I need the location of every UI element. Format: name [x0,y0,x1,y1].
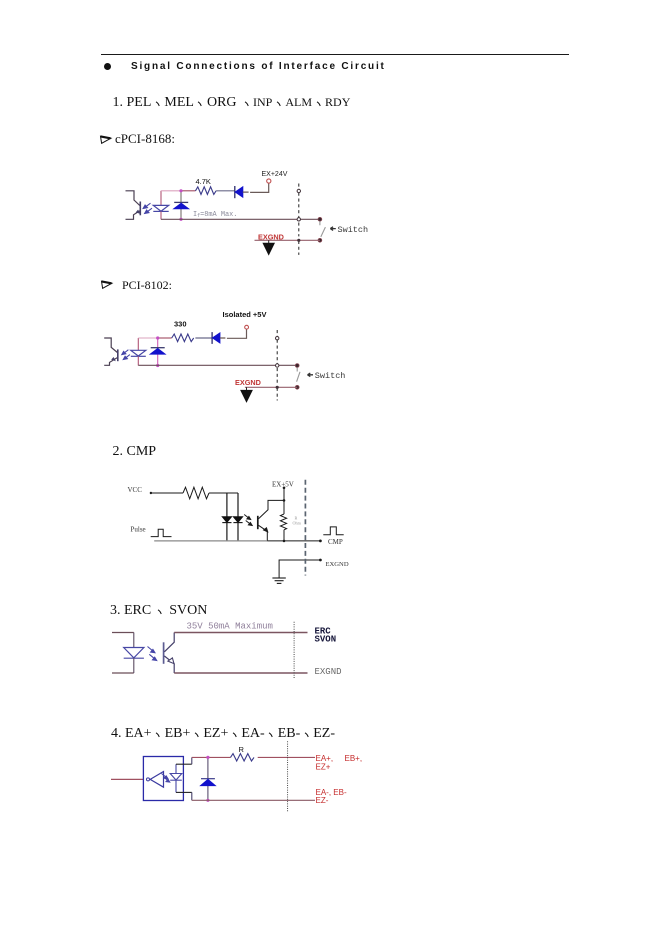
svg-text:EX+24V: EX+24V [262,171,288,178]
junction node collector rail [283,499,286,502]
wire mid rail [161,218,318,220]
connector pin circle top [276,337,279,340]
junction node top [179,189,182,192]
protection diode branch wire [157,338,159,366]
pulse waveform input [151,529,172,536]
wire cathode stub [112,672,134,674]
wire EXGND rail [279,560,320,578]
line driver box U4 [143,757,183,801]
junction node top [206,756,209,759]
wire anode stub [112,632,134,634]
wire emitter stub [104,357,118,365]
dashed connector boundary [276,330,278,401]
switch S1 top contact [318,217,322,221]
CIRCUIT 2 : PCI-8102 [95,300,355,410]
svg-text:EZ+: EZ+ [316,762,331,771]
svg-text:35V 50mA Maximum: 35V 50mA Maximum [187,621,273,631]
resistor R 4.7K [196,187,217,195]
wire LED bottom lead [133,658,135,673]
wire resistor to diode [195,337,212,339]
wire VCC to resistor [151,492,183,494]
wire top rail to resistor [158,337,172,339]
wire cathode stub out of box [176,791,192,793]
switch S2 lever [297,368,300,382]
wire EXGND rail [174,672,307,674]
connector pin circle mid [297,218,300,221]
CIRCUIT 5 : encoder inputs [105,738,375,818]
bullet [104,63,111,70]
label Switch with arrow [308,373,314,377]
terminal Isolated +5V [245,325,249,329]
connector pin circle mid [276,364,279,367]
heading PCI-8102 [100,276,172,294]
svg-text:EB+,: EB+, [345,754,363,763]
optocoupler U2 phototransistor [104,338,118,365]
wire mid rail [138,364,297,366]
protection diode D2 of PCI-8102 (points up) [150,348,165,354]
emitter arrowhead [264,528,268,532]
wire LED branch bottom [160,211,162,219]
LED D1 of optocoupler U2 [131,350,146,356]
CIRCUIT 4 : ERC/SVON [105,615,355,685]
section title [131,61,386,72]
svg-text:SVON: SVON [315,635,337,645]
light arrows to LED [162,774,170,783]
transistor Q3 collector [259,500,285,518]
svg-text:Isolated +5V: Isolated +5V [223,310,267,319]
wire collector stub [126,191,141,206]
resistor R1 (input) [183,487,209,499]
wire LED left branch [226,493,228,541]
ground symbol [272,578,285,583]
light arrows to Q4 [148,647,157,661]
node VCC [150,492,152,494]
node EX+5V [283,487,286,490]
dashed interface boundary (thick) [304,480,306,576]
switch S2 top contact [295,364,299,368]
resistor R [231,754,254,761]
LED D1 of optocoupler [153,205,168,211]
transistor Q1 emitter arrow [136,210,140,213]
dotted interface boundary [287,741,289,812]
junction node bottom [156,364,159,367]
ground symbol (arrow) [268,240,270,243]
wire top rail to resistor [181,190,196,192]
light arrows into Q2 [122,350,130,360]
protection diode D2 (points up) [174,202,189,208]
transistor Q2 base bar [117,349,119,361]
transistor Q4 emitter with open arrow [164,656,174,673]
junction node output [283,540,286,543]
light arrows to Q3 [244,515,252,526]
LED D1 of U4 [170,764,182,792]
wire ERC/SVON rail [174,632,307,634]
wire anode stub out of box [176,763,192,765]
wire bus vertical top [191,757,193,764]
heading 2. CMP [113,444,157,460]
svg-text:VCC: VCC [128,486,143,494]
svg-text:Pulse: Pulse [131,526,146,534]
wire EX+5V down [283,488,285,514]
wire diode to terminal [243,183,269,192]
diode D3 of PCI-8102 (points left) [212,332,220,344]
wire bottom rail [192,799,315,801]
protection diode D2 branch wire [180,191,182,220]
diode D3 (points left) [235,186,243,198]
svg-text:4.7K: 4.7K [196,177,211,186]
wire resistor to output rail [283,530,285,541]
wire LED right branch [237,493,239,541]
wire EXGND rail [245,386,297,388]
termination diode D2 branch [207,757,209,800]
inverter A1 (points left) with bubble [150,772,163,788]
svg-text:EXGND: EXGND [235,378,261,387]
heading 4. EA+ EB+ EZ+ EA- EB- EZ- [111,726,335,742]
svg-text:EZ-: EZ- [316,796,329,805]
wire top rail [161,190,181,192]
svg-text:Switch: Switch [338,225,369,235]
CIRCUIT 3 : CMP [110,470,360,590]
junction node bottom [206,799,209,802]
terminal EX+24V [267,179,271,183]
wire top rail [192,756,231,758]
heading 1. PEL MEL ORG INP ALM RDY [113,95,351,111]
LED DA (left, points down) [222,517,231,523]
wire LED branch bottom [137,356,139,365]
svg-text:EXGND: EXGND [315,667,342,677]
switch S1 bottom contact [318,238,322,242]
label Switch with arrow [330,227,336,231]
optocoupler U1 phototransistor [126,191,141,220]
junction dot on dashed line [276,386,279,389]
junction node bottom [179,218,182,221]
top horizontal rule [101,54,569,55]
wire top rail [138,337,157,339]
wire LED top lead [133,633,135,648]
wire resistor to LED pair [209,492,238,494]
transistor Q4 collector [164,633,174,652]
wire top rail to labels [258,756,315,758]
dotted interface boundary [293,622,295,679]
dashed connector boundary [298,184,300,255]
wire bus vertical bottom [191,792,193,800]
connector pin circle top [297,189,300,192]
svg-text:330: 330 [174,319,187,328]
wire LED branch top [137,338,139,350]
junction dot on dashed line [297,239,300,242]
node EXGND [319,559,322,562]
wire diode to terminal [220,329,247,338]
wire emitter stub [126,211,141,220]
svg-text:Ohm: Ohm [293,521,302,526]
heading cPCI-8168 [99,130,175,148]
pulse waveform output [323,527,343,535]
wire collector stub [104,338,117,353]
node CMP [319,540,322,543]
switch S1 lever [320,221,326,237]
svg-text:CMP: CMP [328,538,343,546]
wire EXGND rail [255,239,320,241]
transistor Q1 base bar [139,202,141,216]
svg-text:If=8mA Max.: If=8mA Max. [193,211,237,219]
wire LED branch top [160,191,162,206]
junction node top [156,336,159,339]
CIRCUIT 1 : cPCI-8168 [100,160,380,265]
ground symbol (arrow) [246,387,248,390]
wire input lead [111,778,143,780]
LED DB (right, points down) [233,517,242,523]
switch S2 bottom contact [295,385,299,389]
light arrows into Q1 [143,203,152,213]
transistor Q3 base bar [257,516,259,529]
wire output rail [267,540,320,542]
svg-text:R: R [239,745,245,754]
transistor Q2 emitter arrow [112,358,116,361]
transistor Q3 emitter [259,525,268,541]
wire resistor to diode [216,190,235,192]
svg-text:EXGND: EXGND [326,561,349,568]
LED D1 of optocoupler U3 [124,648,144,659]
resistor R 330 [172,334,194,342]
resistor R2 (pull-up, vertical) [280,514,286,530]
svg-text:Switch: Switch [315,371,346,381]
heading 3. ERC SVON [110,603,207,619]
transistor Q4 base bar [163,642,165,664]
wire bottom rail (gray) [154,540,267,542]
termination diode D2 (points up) [201,779,216,786]
